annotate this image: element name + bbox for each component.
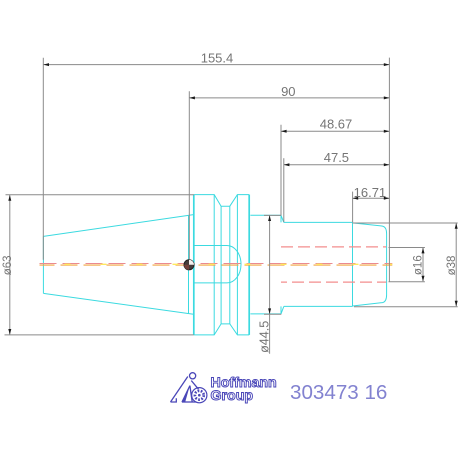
taper bottom edge <box>43 293 193 314</box>
logo text Hoffmann <box>211 376 277 390</box>
cylinder 44.5 bottom edge <box>250 313 281 315</box>
gauge line <box>188 216 190 314</box>
arrow dia44.5 bottom <box>268 308 271 314</box>
ext line right shared <box>388 58 390 282</box>
taper small end face <box>42 236 44 293</box>
arrow 16.71 left <box>353 197 359 200</box>
flange bottom edge <box>194 324 249 335</box>
taper body outline <box>43 215 193 315</box>
ext line top dia63 <box>6 194 195 196</box>
arrow 155.4 right <box>384 63 390 66</box>
centerline yellow dashes <box>40 263 393 265</box>
bore hidden line top <box>281 246 386 248</box>
svg-text:48.67: 48.67 <box>320 116 353 131</box>
ext line top dia16 <box>389 247 425 249</box>
svg-text:90: 90 <box>281 84 295 99</box>
taper top edge <box>43 215 193 237</box>
bore hidden line bottom <box>281 281 386 283</box>
arrow 47.5 right <box>384 163 390 166</box>
arrow 48.67 left <box>281 130 287 133</box>
dimension dia63 <box>5 195 195 335</box>
logo text Group <box>211 389 254 403</box>
svg-text:155.4: 155.4 <box>201 51 234 66</box>
ext seg bottom dia44.5 <box>264 313 281 315</box>
flange <box>194 195 249 335</box>
dimension 47.5 <box>284 158 390 222</box>
ext line left 16.71 <box>352 192 354 223</box>
gauge point ball <box>184 260 194 270</box>
dimension 90 <box>189 91 389 261</box>
svg-text:ø63: ø63 <box>2 255 14 275</box>
flange right face <box>248 195 250 335</box>
arrow 48.67 right <box>384 130 390 133</box>
arrow dia16 bottom <box>422 276 425 282</box>
svg-text:ø44.5: ø44.5 <box>258 321 272 353</box>
step chamfer top <box>281 215 284 222</box>
arrow 16.71 right <box>384 197 390 200</box>
arrow 155.4 left <box>43 63 49 66</box>
ext line bottom dia38 <box>354 306 458 308</box>
ext line top dia38 <box>353 222 458 224</box>
flange inner vertical right shoulder <box>236 195 238 335</box>
svg-text:ø16: ø16 <box>412 255 424 275</box>
ext line left 48.67 <box>280 125 282 215</box>
ext seg top dia44.5 <box>264 214 281 216</box>
arrow 90 left <box>189 96 195 99</box>
dimension 48.67 <box>281 125 389 215</box>
logo figure leg fill <box>182 385 190 402</box>
arrow 47.5 left <box>284 163 290 166</box>
nose profile <box>353 223 387 306</box>
svg-text:47.5: 47.5 <box>324 150 349 165</box>
arrow dia63 top <box>8 195 11 201</box>
dimension 155.4 <box>43 58 389 282</box>
dimension dia44.5 <box>264 215 281 353</box>
step face bottom <box>280 306 282 314</box>
logo figure triangle <box>171 377 199 403</box>
flange top edge <box>194 195 249 207</box>
part number 303473 16 <box>290 383 387 404</box>
centerline orange <box>40 264 393 266</box>
svg-text:ø38: ø38 <box>446 256 458 276</box>
logo head <box>190 373 196 379</box>
arrow dia38 bottom <box>455 301 458 307</box>
svg-text:16.71: 16.71 <box>354 185 387 200</box>
flange groove corner line 2 <box>229 206 231 324</box>
dome boss <box>194 246 241 283</box>
nose junction line <box>352 223 354 307</box>
ext line bottom dia63 <box>5 334 194 336</box>
flange inner vertical left shoulder <box>213 195 215 335</box>
arrow dia16 top <box>422 248 425 254</box>
arrow dia38 top <box>455 223 458 229</box>
arrow dia44.5 top <box>268 215 271 221</box>
arrow 90 right <box>384 96 390 99</box>
dimension 16.71 <box>353 192 390 223</box>
arrow dia63 bottom <box>8 329 11 335</box>
centerline red <box>40 263 393 265</box>
logo gear wheel <box>192 388 207 403</box>
cylinder 38 bottom edge <box>284 305 353 307</box>
ext line left 155.4 <box>42 58 44 260</box>
dimension dia38 <box>353 223 458 307</box>
ext line left 47.5 <box>283 158 285 222</box>
step face top <box>280 215 282 222</box>
dimension dia16 <box>389 248 425 282</box>
ext line bottom dia16 <box>389 281 425 283</box>
cylinder 38 top edge <box>284 221 353 223</box>
step chamfer bottom <box>281 306 284 314</box>
flange groove corner line 1 <box>220 206 222 324</box>
cylinder 44.5 top edge <box>250 214 281 216</box>
cylinder sections <box>250 215 386 314</box>
ext line left 90 <box>188 91 190 261</box>
flange left face <box>193 195 195 335</box>
